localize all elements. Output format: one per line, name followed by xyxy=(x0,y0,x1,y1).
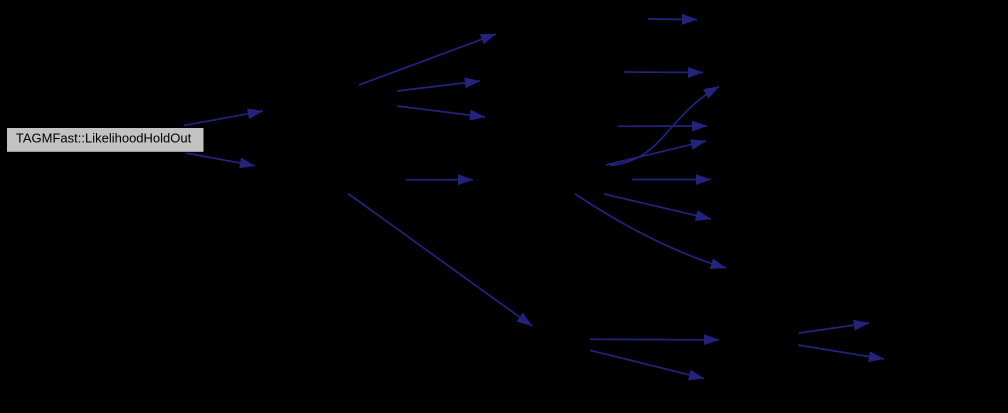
edge horizontal third right xyxy=(618,125,707,127)
edge rising to arrowhead right xyxy=(606,141,706,165)
edge descending from Likelihood xyxy=(604,194,711,219)
edge horizontal top right xyxy=(648,18,697,21)
edge horizontal bottom xyxy=(590,338,719,341)
edge long descending from Likelihood xyxy=(575,194,726,268)
edge horizontal from Likelihood xyxy=(632,179,711,181)
edge from LikelihoodHoldOut to upper node xyxy=(184,111,263,126)
edge descending bottom xyxy=(590,350,704,378)
edge node3 long diagonal to bottom node xyxy=(348,194,532,327)
edge bottom right rising xyxy=(799,323,869,333)
edge node2 top to rank3 top node xyxy=(359,34,496,85)
edge bottom right descending xyxy=(798,345,884,359)
edge node2 to rank3 mid node xyxy=(397,81,480,91)
edge from LikelihoodHoldOut to lower node xyxy=(186,153,255,166)
edge node2 to rank3 lower node xyxy=(397,106,485,117)
node TAGMFast::LikelihoodHoldOut xyxy=(7,128,205,153)
edge node3 to Likelihood node (horizontal) xyxy=(406,179,473,181)
svg-text:TAGMFast::LikelihoodHoldOut: TAGMFast::LikelihoodHoldOut xyxy=(16,131,192,146)
edge curved up right xyxy=(610,87,719,166)
edge horizontal second right xyxy=(624,71,703,74)
